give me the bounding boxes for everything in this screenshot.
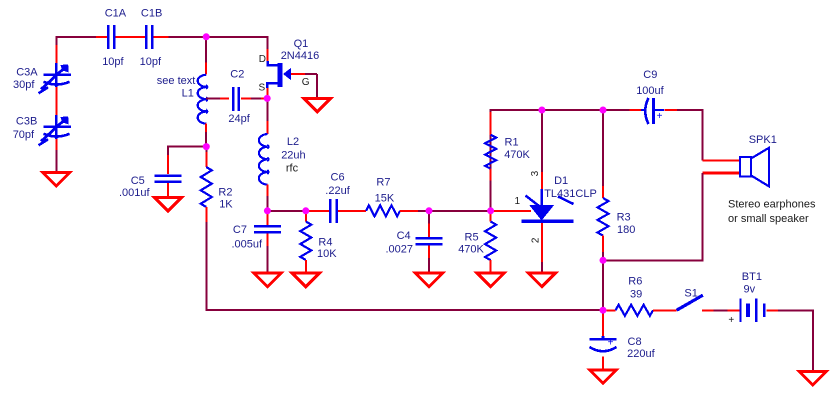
svg-text:R3: R3 xyxy=(617,212,631,224)
svg-text:R2: R2 xyxy=(218,187,232,199)
svg-text:SPK1: SPK1 xyxy=(749,134,777,146)
svg-text:3: 3 xyxy=(530,170,541,176)
svg-text:100uf: 100uf xyxy=(636,85,664,97)
svg-text:10pf: 10pf xyxy=(140,56,162,68)
svg-text:9v: 9v xyxy=(744,284,756,296)
svg-text:C8: C8 xyxy=(628,336,642,348)
svg-text:R5: R5 xyxy=(465,232,479,244)
svg-text:L1: L1 xyxy=(182,88,194,100)
svg-text:70pf: 70pf xyxy=(13,129,35,141)
svg-text:C9: C9 xyxy=(643,69,657,81)
svg-text:rfc: rfc xyxy=(286,163,299,175)
svg-text:2: 2 xyxy=(530,237,541,243)
svg-text:C3A: C3A xyxy=(16,66,38,78)
svg-text:+: + xyxy=(728,315,734,326)
svg-text:S1: S1 xyxy=(684,288,697,300)
svg-text:see text: see text xyxy=(157,75,196,87)
svg-text:C5: C5 xyxy=(131,175,145,187)
svg-text:220uf: 220uf xyxy=(627,348,655,360)
svg-text:TL431CLP: TL431CLP xyxy=(544,188,597,200)
svg-text:10K: 10K xyxy=(317,248,337,260)
svg-text:S: S xyxy=(259,83,266,94)
svg-text:Q1: Q1 xyxy=(294,38,309,50)
svg-text:.0027: .0027 xyxy=(386,243,414,255)
svg-text:470K: 470K xyxy=(504,149,530,161)
svg-text:.22uf: .22uf xyxy=(325,185,350,197)
svg-text:22uh: 22uh xyxy=(281,149,305,161)
svg-text:+: + xyxy=(657,111,663,122)
svg-text:10pf: 10pf xyxy=(102,56,124,68)
svg-text:C4: C4 xyxy=(397,230,411,242)
svg-text:C1B: C1B xyxy=(141,7,162,19)
svg-text:+: + xyxy=(608,338,614,349)
svg-text:R4: R4 xyxy=(318,236,332,248)
svg-text:15K: 15K xyxy=(375,192,395,204)
svg-text:180: 180 xyxy=(617,224,635,236)
svg-text:24pf: 24pf xyxy=(228,113,250,125)
svg-text:1: 1 xyxy=(515,196,521,207)
svg-text:C1A: C1A xyxy=(105,7,127,19)
svg-text:.005uf: .005uf xyxy=(232,238,264,250)
svg-text:G: G xyxy=(302,77,310,88)
svg-text:or small speaker: or small speaker xyxy=(728,213,809,225)
svg-text:C3B: C3B xyxy=(16,116,37,128)
svg-text:470K: 470K xyxy=(458,243,484,255)
svg-text:39: 39 xyxy=(630,288,642,300)
svg-text:D: D xyxy=(259,54,266,65)
svg-text:C2: C2 xyxy=(230,68,244,80)
svg-text:D1: D1 xyxy=(554,175,568,187)
svg-text:R6: R6 xyxy=(628,276,642,288)
svg-text:.001uf: .001uf xyxy=(119,187,151,199)
svg-text:C7: C7 xyxy=(233,224,247,236)
svg-text:1K: 1K xyxy=(219,199,233,211)
svg-text:R1: R1 xyxy=(505,136,519,148)
svg-text:Stereo earphones: Stereo earphones xyxy=(728,198,816,210)
svg-text:BT1: BT1 xyxy=(742,271,762,283)
svg-text:L2: L2 xyxy=(287,136,299,148)
svg-text:C6: C6 xyxy=(331,171,345,183)
svg-text:30pf: 30pf xyxy=(13,79,35,91)
svg-text:R7: R7 xyxy=(376,177,390,189)
svg-text:2N4416: 2N4416 xyxy=(281,50,320,62)
